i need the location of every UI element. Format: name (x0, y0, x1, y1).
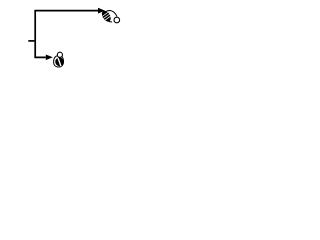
wire stub (tick on vertical wire) (28, 40, 34, 42)
arrowhead on bottom wire (46, 55, 53, 61)
lamp LP1 (top bulb pictogram) (100, 9, 120, 23)
arrowhead on top wire (98, 8, 105, 14)
wire: top horizontal + left vertical + bottom horizontal (35, 11, 98, 58)
lamp LP2 (bottom bulb pictogram) (53, 52, 65, 68)
